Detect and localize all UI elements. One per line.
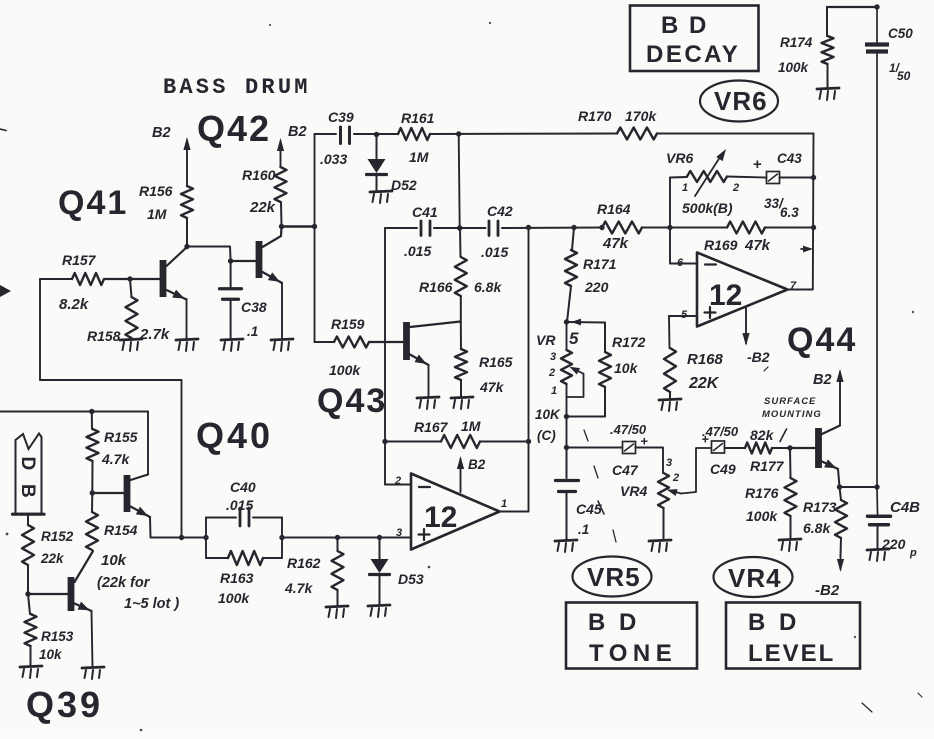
svg-text:SURFACE: SURFACE — [764, 396, 816, 407]
transistor Q40 — [92, 475, 150, 520]
node Q39 base — [25, 591, 30, 596]
capacitor C47 — [623, 442, 636, 454]
capacitor C39 — [341, 127, 350, 144]
svg-text:6.3: 6.3 — [780, 205, 799, 220]
svg-text:10k: 10k — [39, 647, 63, 662]
node C45 top — [564, 445, 569, 450]
svg-text:50: 50 — [897, 69, 911, 83]
svg-text:C42: C42 — [487, 203, 513, 219]
svg-text:(C): (C) — [537, 428, 556, 443]
label 220 — [584, 279, 609, 295]
svg-text:Q44: Q44 — [787, 321, 857, 359]
svg-text:.1: .1 — [578, 522, 589, 537]
svg-text:2: 2 — [672, 472, 679, 484]
label 100k R174 — [778, 60, 810, 75]
transistor Q39 — [28, 551, 93, 614]
svg-text:C50: C50 — [888, 26, 913, 41]
label C39 — [328, 109, 354, 125]
svg-text:.47/50: .47/50 — [702, 424, 739, 439]
svg-text:1M: 1M — [147, 206, 167, 222]
label R155 — [104, 429, 138, 445]
svg-text:100k: 100k — [746, 508, 778, 524]
svg-text:Q40: Q40 — [196, 415, 273, 456]
svg-text:10k: 10k — [614, 360, 639, 376]
svg-text:6.8k: 6.8k — [474, 279, 502, 295]
node R155 top — [89, 409, 94, 414]
label C40 — [230, 479, 256, 495]
resistor R152 — [22, 525, 34, 594]
ground C48 — [867, 549, 889, 561]
ground D53 — [368, 605, 390, 617]
label R164 — [597, 201, 631, 217]
label .033 — [320, 151, 347, 167]
svg-text:5: 5 — [681, 309, 688, 321]
svg-text:MOUNTING: MOUNTING — [762, 409, 822, 420]
svg-text:R168: R168 — [687, 351, 724, 368]
label .47/50 C49 — [702, 424, 739, 439]
label 8.2k — [59, 296, 89, 313]
label C50 — [888, 26, 913, 41]
node Q44 base — [787, 445, 792, 450]
transistor Q41 — [104, 247, 187, 303]
diode D52 — [367, 135, 387, 192]
resistor R164 — [602, 222, 642, 234]
svg-text:B2: B2 — [152, 125, 171, 141]
svg-text:4.7k: 4.7k — [101, 451, 130, 467]
capacitor C41 — [421, 221, 430, 236]
svg-text:Q41: Q41 — [58, 184, 128, 222]
label R171 — [583, 256, 617, 272]
capacitor C38 — [220, 261, 242, 339]
label .015 C41 — [404, 243, 431, 259]
svg-text:1M: 1M — [461, 418, 481, 434]
node Q42 collector — [279, 224, 284, 229]
resistor R158 — [126, 279, 138, 338]
svg-text:TONE: TONE — [589, 640, 677, 667]
svg-text:2: 2 — [732, 182, 739, 194]
pin 5 label — [681, 309, 688, 321]
wire x385 vertical — [384, 228, 386, 485]
node D53 top — [377, 535, 382, 540]
label 22K — [688, 375, 720, 392]
svg-text:-B2: -B2 — [747, 349, 770, 365]
wire top right corner — [827, 6, 877, 8]
node R167 left — [382, 439, 387, 444]
svg-text:Q39: Q39 — [26, 684, 103, 725]
capacitor C50 — [865, 45, 889, 52]
svg-text:R165: R165 — [479, 354, 513, 370]
resistor R157 — [72, 273, 104, 285]
wire Q44 emitter — [838, 469, 877, 487]
ellipse VR4 — [714, 557, 793, 597]
svg-text:R159: R159 — [331, 316, 365, 332]
label R169 — [704, 237, 738, 253]
label Q41 — [58, 184, 128, 222]
svg-text:C41: C41 — [412, 204, 438, 220]
svg-text:170k: 170k — [625, 108, 657, 124]
tag BD — [13, 434, 45, 515]
label 10k R154 — [101, 552, 127, 569]
wire Q41c to Q42b — [187, 247, 231, 262]
node VR5 bottom — [564, 414, 569, 419]
label .015 C42 — [481, 244, 508, 260]
svg-text:1: 1 — [501, 498, 507, 510]
label 22k R160 — [249, 199, 276, 216]
svg-text:8.2k: 8.2k — [59, 296, 89, 313]
label C48 — [890, 499, 920, 516]
svg-text:R170: R170 — [578, 108, 612, 124]
op-amp U1 — [411, 474, 500, 550]
label R174 — [780, 35, 813, 50]
label R172 — [612, 334, 646, 350]
wire mid main — [385, 227, 814, 230]
svg-text:R158: R158 — [87, 328, 121, 344]
svg-text:47k: 47k — [479, 379, 505, 395]
label 1M R156 — [147, 206, 167, 222]
svg-text:.1: .1 — [247, 324, 258, 339]
svg-text:VR5: VR5 — [587, 562, 641, 592]
label 2.7k — [139, 326, 170, 343]
label R166 — [419, 279, 453, 295]
supply B2 R160 — [277, 138, 284, 167]
svg-text:B: B — [17, 484, 38, 498]
svg-text:3: 3 — [550, 351, 556, 363]
label Q42 — [197, 108, 271, 149]
svg-text:R155: R155 — [104, 429, 138, 445]
label 500k(B) — [682, 200, 733, 216]
svg-text:R172: R172 — [612, 334, 646, 350]
node R161 right — [456, 131, 461, 136]
svg-text:2.7k: 2.7k — [139, 326, 170, 343]
node R169 right — [811, 225, 816, 230]
svg-text:6: 6 — [677, 257, 684, 269]
wire x459 down — [459, 134, 460, 228]
node R164 left — [599, 225, 604, 230]
box BD TONE — [566, 603, 697, 669]
label 47k R165 — [479, 379, 505, 395]
resistor R155 — [87, 412, 99, 494]
svg-text:R173: R173 — [803, 499, 837, 515]
ground R165 — [451, 397, 473, 409]
ground Q41 emitter — [176, 339, 198, 351]
svg-text:10K: 10K — [535, 407, 561, 422]
svg-text:B2: B2 — [288, 124, 307, 140]
svg-text:p: p — [909, 547, 917, 559]
label C45 — [576, 501, 604, 517]
svg-text:B D: B D — [588, 609, 640, 636]
label B2 left — [152, 125, 171, 141]
svg-text:220: 220 — [584, 279, 609, 295]
ground R176 — [779, 539, 801, 551]
svg-text:C38: C38 — [241, 299, 267, 315]
svg-text:10k: 10k — [101, 552, 127, 569]
potentiometer VR6 — [687, 147, 729, 196]
svg-text:BASS DRUM: BASS DRUM — [163, 75, 311, 100]
label 100k R176 — [746, 508, 778, 524]
pin 2 VR4 — [672, 472, 679, 484]
resistor R167 — [385, 435, 529, 448]
ground Q39 emitter — [82, 667, 104, 679]
resistor R163 — [228, 551, 263, 565]
svg-text:R166: R166 — [419, 279, 453, 295]
svg-text:100k: 100k — [329, 362, 361, 378]
svg-text:47k: 47k — [744, 237, 771, 254]
pin 7 label — [790, 280, 797, 292]
svg-text:3: 3 — [666, 457, 672, 469]
node R162 top — [335, 535, 340, 540]
label R170 — [578, 108, 612, 124]
label C38 — [241, 299, 267, 315]
wire Q39 emitter — [92, 611, 93, 667]
label plus C49 — [702, 432, 710, 447]
label 1-5 lot — [124, 596, 179, 612]
capacitor C49 — [712, 441, 725, 453]
svg-text:D53: D53 — [398, 571, 424, 587]
label VR5 pot — [536, 329, 579, 348]
node box right — [279, 535, 284, 540]
label .1 C38 — [247, 324, 258, 339]
wire C43 to bus — [780, 177, 814, 179]
node Q44 emitter — [837, 484, 842, 489]
label C47 — [612, 462, 639, 478]
resistor R169 — [727, 222, 765, 234]
wire C49 to R177 — [725, 447, 746, 449]
op-amp U2 — [697, 253, 788, 327]
wire pin5 — [669, 316, 697, 348]
svg-text:22K: 22K — [688, 375, 720, 392]
label R159 — [331, 316, 365, 332]
svg-text:R161: R161 — [401, 110, 435, 126]
wire input to R157 — [40, 279, 72, 380]
wire Q43 emitter — [428, 365, 430, 397]
svg-text:DECAY: DECAY — [646, 41, 740, 68]
resistor R170 — [617, 128, 657, 140]
svg-text:VR6: VR6 — [714, 86, 768, 116]
resistor R159 — [315, 337, 370, 348]
label (C) VR5 — [537, 428, 556, 443]
svg-text:1: 1 — [682, 182, 688, 194]
label VR6 oval — [714, 86, 768, 116]
label R162 — [287, 555, 321, 571]
resistor R168 — [664, 348, 676, 399]
resistor R166 — [455, 228, 467, 322]
pin 1 label — [501, 498, 507, 510]
svg-text:VR4: VR4 — [620, 483, 647, 499]
wire bias top — [0, 412, 148, 475]
capacitor C48 — [868, 487, 891, 548]
resistor R154 — [86, 493, 98, 550]
ground C45 — [555, 540, 577, 552]
pin 2 VR5 — [548, 367, 555, 379]
label 4.7k R155 — [101, 451, 130, 467]
node D52 top — [374, 132, 379, 137]
svg-text:.47/50: .47/50 — [610, 422, 647, 437]
svg-text:LEVEL: LEVEL — [748, 640, 835, 667]
resistor R171 — [565, 228, 577, 323]
transistor Q42 — [231, 227, 283, 286]
node x529 top — [526, 225, 531, 230]
label D53 — [398, 571, 424, 587]
arrow on output riser — [801, 246, 813, 253]
wire pin3 — [380, 537, 412, 539]
pin 2 VR6 — [732, 182, 739, 194]
svg-text:R171: R171 — [583, 256, 617, 272]
label plus C47 — [641, 434, 649, 449]
svg-text:+: + — [753, 156, 762, 173]
ground R158 — [120, 339, 142, 351]
ellipse VR5 — [573, 557, 652, 597]
label plus C43 — [753, 156, 762, 173]
supply B2 U1 — [457, 456, 486, 492]
wire tone row — [567, 447, 623, 449]
svg-text:-B2: -B2 — [815, 582, 840, 599]
label BD LEVEL — [748, 609, 835, 667]
wire vertical x314 — [314, 134, 316, 342]
svg-text:R176: R176 — [745, 485, 779, 501]
ground Q43 emitter — [417, 397, 439, 409]
svg-text:22k: 22k — [40, 551, 65, 566]
svg-text:C45: C45 — [576, 501, 602, 517]
svg-text:C49: C49 — [710, 461, 736, 477]
svg-text:R160: R160 — [242, 167, 276, 183]
svg-text:100k: 100k — [218, 590, 250, 606]
label 47k R169 — [744, 237, 771, 254]
label -B2 U2 — [747, 349, 770, 365]
ground Q42 emitter — [271, 339, 293, 351]
label R167 — [414, 419, 449, 435]
label R176 — [745, 485, 779, 501]
svg-text:22k: 22k — [249, 199, 276, 216]
svg-text:4.7k: 4.7k — [284, 580, 313, 596]
wire box to opamp — [282, 537, 411, 539]
resistor R172 — [567, 319, 612, 417]
label C41 — [412, 204, 438, 220]
node C38 top — [228, 258, 233, 263]
resistor R153 — [25, 594, 37, 666]
label R156 — [139, 183, 173, 199]
label SURFACE — [764, 396, 816, 407]
label 10k R172 — [614, 360, 639, 376]
svg-text:100k: 100k — [778, 60, 810, 75]
label 100k R163 — [218, 590, 250, 606]
pin 3 label — [396, 527, 402, 539]
capacitor C40 — [240, 508, 249, 526]
label VR6 pot — [666, 150, 693, 166]
label R158 — [87, 328, 121, 344]
wire pin6 — [670, 228, 697, 264]
label 82k — [750, 427, 787, 443]
wire top main — [315, 133, 814, 136]
label R153 — [41, 629, 74, 644]
label 6.8k R173 — [803, 520, 831, 536]
diode D53 — [370, 538, 390, 606]
resistor R174 — [822, 7, 834, 88]
svg-text:82k: 82k — [750, 427, 775, 443]
svg-text:500k(B): 500k(B) — [682, 200, 733, 216]
node R158 tap — [127, 276, 132, 281]
wire Q41 emitter — [186, 299, 188, 339]
label BD TONE — [588, 609, 677, 667]
resistor R165 — [455, 322, 467, 397]
svg-text:C39: C39 — [328, 109, 354, 125]
label B2 right — [288, 124, 307, 140]
capacitor C42 — [489, 221, 498, 236]
svg-text:B2: B2 — [468, 457, 486, 472]
pin 6 label — [677, 257, 684, 269]
wire R157 to Q41 base — [104, 278, 159, 280]
box BD LEVEL — [726, 603, 860, 669]
svg-text:R162: R162 — [287, 555, 321, 571]
svg-text:VR: VR — [536, 332, 556, 348]
resistor R156 — [181, 186, 193, 246]
wire VR6 branch — [670, 177, 687, 228]
svg-text:.015: .015 — [226, 497, 253, 513]
svg-text:.015: .015 — [404, 243, 431, 259]
label .1 C45 — [578, 522, 589, 537]
svg-text:C4B: C4B — [890, 499, 920, 516]
svg-text:Q43: Q43 — [317, 382, 387, 420]
label 10k R153 — [39, 647, 63, 662]
node bus top — [874, 4, 879, 9]
resistor R177 — [745, 443, 790, 454]
capacitor C43 — [767, 172, 780, 184]
svg-text:D52: D52 — [391, 177, 417, 193]
svg-text:C40: C40 — [230, 479, 256, 495]
box BD DECAY — [630, 6, 759, 72]
label BD DECAY — [646, 12, 740, 68]
capacitor C45 — [556, 448, 579, 541]
node C43 right — [811, 175, 816, 180]
wire pot to C43 — [727, 177, 766, 178]
label C43 — [777, 151, 802, 166]
svg-text:.015: .015 — [481, 244, 508, 260]
svg-text:VR4: VR4 — [728, 563, 782, 593]
label 10K VR5 — [535, 407, 561, 422]
network C40 R163 box — [206, 518, 282, 559]
label 100k R159 — [329, 362, 361, 378]
pin 2 label — [394, 475, 401, 487]
label R168 — [687, 351, 724, 368]
supply B2 Q44 — [813, 369, 844, 425]
label 6.8k — [474, 279, 502, 295]
node bus out — [874, 484, 879, 489]
svg-text:12: 12 — [424, 501, 457, 534]
resistor R176 — [785, 448, 797, 539]
label R163 — [220, 570, 254, 586]
wire C47 to VR4 — [636, 448, 664, 474]
input arrow — [0, 285, 11, 297]
svg-text:.033: .033 — [320, 151, 347, 167]
svg-text:47k: 47k — [602, 235, 629, 252]
label .015 C40 — [226, 497, 253, 513]
node C41 C42 junction — [457, 225, 462, 230]
label 220p — [881, 536, 917, 559]
wire feedback — [40, 380, 182, 538]
label R160 — [242, 167, 276, 183]
svg-text:(22k for: (22k for — [97, 575, 151, 591]
wire U1 output — [500, 511, 529, 513]
label 1M R167 — [461, 418, 481, 434]
label R154 — [104, 522, 138, 538]
label VR5 oval — [587, 562, 641, 592]
label -B2 R173 — [815, 582, 840, 599]
svg-text:R164: R164 — [597, 201, 631, 217]
svg-text:VR6: VR6 — [666, 150, 693, 166]
svg-text:R157: R157 — [62, 252, 97, 268]
svg-text:D: D — [17, 457, 38, 471]
label Q43 — [317, 382, 387, 420]
transistor Q43 — [369, 322, 461, 368]
